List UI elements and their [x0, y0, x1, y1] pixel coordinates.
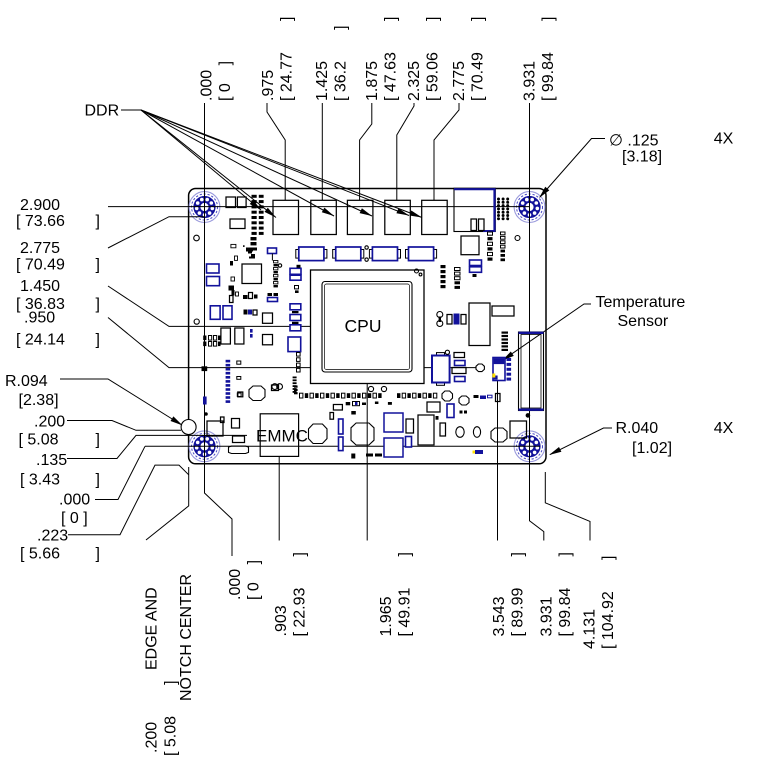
leader 2.775 — [434, 103, 459, 200]
component cluster near bottom-left hole — [207, 392, 249, 454]
svg-text:2.325: 2.325 — [406, 61, 423, 101]
big octagon component center-bottom — [351, 423, 374, 445]
fiducial F1 — [194, 235, 200, 241]
svg-text:CPU: CPU — [345, 316, 382, 336]
svg-text:Sensor: Sensor — [618, 313, 669, 330]
octagon pad right of EMMC — [309, 424, 328, 444]
mounting hole H4 (bottom-right) — [514, 431, 545, 462]
svg-text:∅ .125: ∅ .125 — [609, 133, 659, 150]
DDR memory chips U2-U6 — [273, 200, 447, 234]
CPU U1 outer body — [311, 270, 425, 384]
svg-text:[ 36.2 ]: [ 36.2 ] — [332, 25, 349, 101]
navy via on centerline — [203, 397, 207, 405]
svg-text:[ 99.84 ]: [ 99.84 ] — [557, 552, 574, 637]
svg-text:4X: 4X — [714, 131, 734, 148]
leader temperature sensor w/ arrow — [503, 304, 591, 360]
svg-text:[1.02]: [1.02] — [632, 440, 672, 457]
octagon above EMMC — [249, 386, 265, 401]
notch (edge notch circle) — [181, 420, 196, 435]
svg-text:[ 89.99 ]: [ 89.99 ] — [509, 552, 526, 637]
component cluster below CPU (pad rows) — [272, 384, 437, 398]
svg-text:[ 3.43: [ 3.43 — [20, 472, 60, 489]
svg-text:.975: .975 — [260, 70, 277, 101]
svg-text:3.931: 3.931 — [539, 596, 556, 636]
svg-text:1.450: 1.450 — [20, 278, 60, 295]
pad stack above temp sensor — [502, 332, 509, 352]
svg-text:]: ] — [96, 257, 100, 274]
leader .903 (EMMC center) — [278, 456, 280, 540]
svg-text:[2.38]: [2.38] — [19, 392, 59, 409]
leader .000 (left) — [95, 446, 145, 499]
octagon pentagon bottom — [459, 396, 469, 405]
svg-text:]: ] — [96, 213, 100, 230]
mounting hole H1 (top-left) — [189, 192, 220, 223]
svg-text:[ 5.08 ]: [ 5.08 ] — [163, 680, 180, 756]
horizontal line .000 through bottom holes — [145, 445, 540, 447]
temp sensor pads — [507, 358, 512, 381]
leader R.094 w/ arrow — [60, 379, 181, 425]
blue square component Q2 — [384, 438, 403, 457]
temperature sensor chip — [493, 358, 505, 381]
top-right connector J1 — [454, 188, 495, 231]
blue tantalum cap C5 — [437, 353, 445, 357]
vertical centerline through right holes (3.931) — [530, 103, 544, 541]
svg-text:[ 24.77 ]: [ 24.77 ] — [279, 17, 296, 102]
svg-text:.000: .000 — [59, 492, 90, 509]
svg-text:2.775: 2.775 — [451, 61, 468, 101]
via dot near J2 — [526, 413, 531, 418]
leader 3.543 (temp sensor center) — [497, 381, 499, 541]
fiducial circles between caps — [365, 246, 368, 249]
svg-text:.135: .135 — [36, 452, 67, 469]
leader dia .125 w/ arrow — [540, 139, 605, 198]
leader .950 (right segment) — [424, 367, 476, 369]
fiducial F3 — [515, 236, 520, 241]
svg-text:[ 0 ]: [ 0 ] — [217, 61, 234, 101]
svg-text:[ 5.66: [ 5.66 — [20, 546, 60, 563]
svg-text:.950: .950 — [24, 310, 55, 327]
component cluster left-middle — [202, 244, 302, 403]
svg-text:]: ] — [96, 472, 100, 489]
svg-text:.903: .903 — [273, 605, 290, 636]
leader 1.450 (left) — [108, 286, 311, 326]
fiducial F2 — [194, 319, 199, 324]
svg-text:.000: .000 — [227, 569, 244, 600]
svg-text:]: ] — [96, 546, 100, 563]
CPU U1 die — [322, 282, 412, 373]
octagon small mid-bottom — [442, 391, 453, 401]
leader .200 (left) — [67, 421, 181, 431]
mounting hole H2 (top-right) — [514, 192, 545, 223]
decoupling capacitor row C1-C4 — [296, 247, 437, 261]
left dimension labels column — [5, 197, 100, 563]
octagon component bottom-right — [491, 428, 507, 442]
svg-text:Temperature: Temperature — [596, 294, 686, 311]
svg-text:]: ] — [96, 432, 100, 449]
EMMC flash chip — [260, 414, 298, 457]
svg-text:NOTCH CENTER: NOTCH CENTER — [178, 574, 195, 701]
blue square component Q1 — [384, 413, 403, 432]
leader 1.425 — [321, 103, 323, 200]
svg-text:.200: .200 — [143, 722, 160, 753]
component cluster bottom-middle — [330, 394, 527, 459]
svg-text:4.131: 4.131 — [581, 609, 598, 649]
svg-text:[ 49.91 ]: [ 49.91 ] — [396, 552, 413, 637]
octagon small (end of .950 line) — [476, 364, 484, 372]
svg-text:2.900: 2.900 — [20, 197, 60, 214]
svg-text:[ 99.84 ]: [ 99.84 ] — [540, 17, 557, 102]
svg-text:[3.18]: [3.18] — [622, 149, 662, 166]
PCB board outline — [189, 189, 546, 464]
leader 4.131 (board right edge) — [545, 472, 590, 541]
svg-text:]: ] — [96, 332, 100, 349]
svg-text:[ 0 ]: [ 0 ] — [61, 510, 88, 527]
component cluster top-right — [441, 198, 510, 289]
leader .975 — [267, 103, 285, 200]
svg-text:R.040: R.040 — [616, 420, 659, 437]
svg-text:[ 47.63 ]: [ 47.63 ] — [383, 17, 400, 102]
svg-text:4X: 4X — [714, 420, 734, 437]
via dot on centerline — [204, 412, 208, 416]
leader 1.965 (CPU center) — [366, 384, 368, 541]
svg-text:1.965: 1.965 — [378, 596, 395, 636]
leader R.040 w/ arrow — [550, 428, 612, 455]
svg-text:EMMC: EMMC — [256, 427, 308, 446]
component cluster top-left (resistor arrays) — [226, 195, 264, 251]
component cluster mid-right — [437, 303, 514, 382]
right tall connector J2 — [519, 332, 544, 411]
svg-text:3.931: 3.931 — [522, 61, 539, 101]
svg-text:3.543: 3.543 — [491, 596, 508, 636]
svg-text:EDGE AND: EDGE AND — [143, 587, 160, 670]
svg-text:[ 70.49: [ 70.49 — [16, 257, 65, 274]
svg-text:[ 104.92 ]: [ 104.92 ] — [600, 556, 617, 649]
leader edge-and-notch-center — [146, 467, 189, 540]
vertical centerline through left holes (.000 top datum) — [205, 103, 233, 556]
svg-text:1.875: 1.875 — [364, 61, 381, 101]
svg-text:[ 0 ]: [ 0 ] — [246, 560, 263, 600]
svg-text:[ 70.49 ]: [ 70.49 ] — [470, 17, 487, 101]
leader .223 (left) — [68, 465, 189, 535]
DDR fan leader lines with arrows — [141, 110, 422, 218]
svg-text:.200: .200 — [34, 414, 65, 431]
svg-text:[ 5.08: [ 5.08 — [19, 432, 59, 449]
CPU pin marks — [415, 269, 419, 273]
leader 1.875 — [360, 103, 372, 200]
horizontal line 2.900 through top holes — [108, 206, 530, 208]
mounting hole H3 (bottom-left) — [189, 431, 220, 462]
leader 2.775 (left) — [108, 217, 204, 248]
svg-text:[ 73.66: [ 73.66 — [16, 213, 65, 230]
leader 2.325 — [397, 103, 414, 200]
svg-text:DDR: DDR — [85, 103, 120, 120]
svg-text:2.775: 2.775 — [20, 240, 60, 257]
svg-text:[ 24.14: [ 24.14 — [16, 332, 65, 349]
svg-text:]: ] — [96, 296, 100, 313]
svg-text:.223: .223 — [37, 528, 68, 545]
svg-text:[ 22.93 ]: [ 22.93 ] — [291, 552, 308, 637]
svg-text:R.094: R.094 — [5, 373, 48, 390]
leader .950 (left) — [108, 318, 311, 368]
leader .135 (left) — [67, 435, 247, 458]
svg-text:.000: .000 — [199, 70, 216, 101]
svg-text:[ 59.06 ]: [ 59.06 ] — [425, 17, 442, 101]
svg-text:1.425: 1.425 — [314, 61, 331, 101]
